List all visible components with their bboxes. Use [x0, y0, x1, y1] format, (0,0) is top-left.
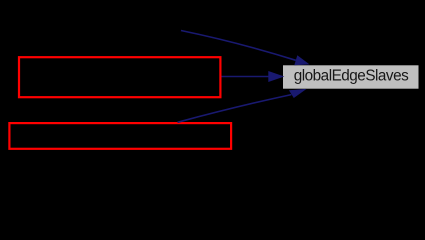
wire: edge from off-screen caller to globalEdgeSlaves [181, 31, 296, 61]
wire: edge from caller box 1 to globalEdgeSlaves [222, 76, 269, 78]
node: caller box 1 (red) [19, 57, 220, 97]
wire: edge from caller box 2 to globalEdgeSlaves [178, 95, 292, 123]
arrowhead of bottom edge [289, 89, 307, 98]
arrowhead of top edge [294, 55, 309, 65]
node U1: globalEdgeSlaves (current function, grey) [283, 65, 419, 88]
svg-text:globalEdgeSlaves: globalEdgeSlaves [294, 68, 409, 85]
caller-graph diagram [0, 0, 425, 155]
node: caller box 2 (red) [9, 123, 231, 149]
arrowhead of middle edge [268, 71, 284, 82]
